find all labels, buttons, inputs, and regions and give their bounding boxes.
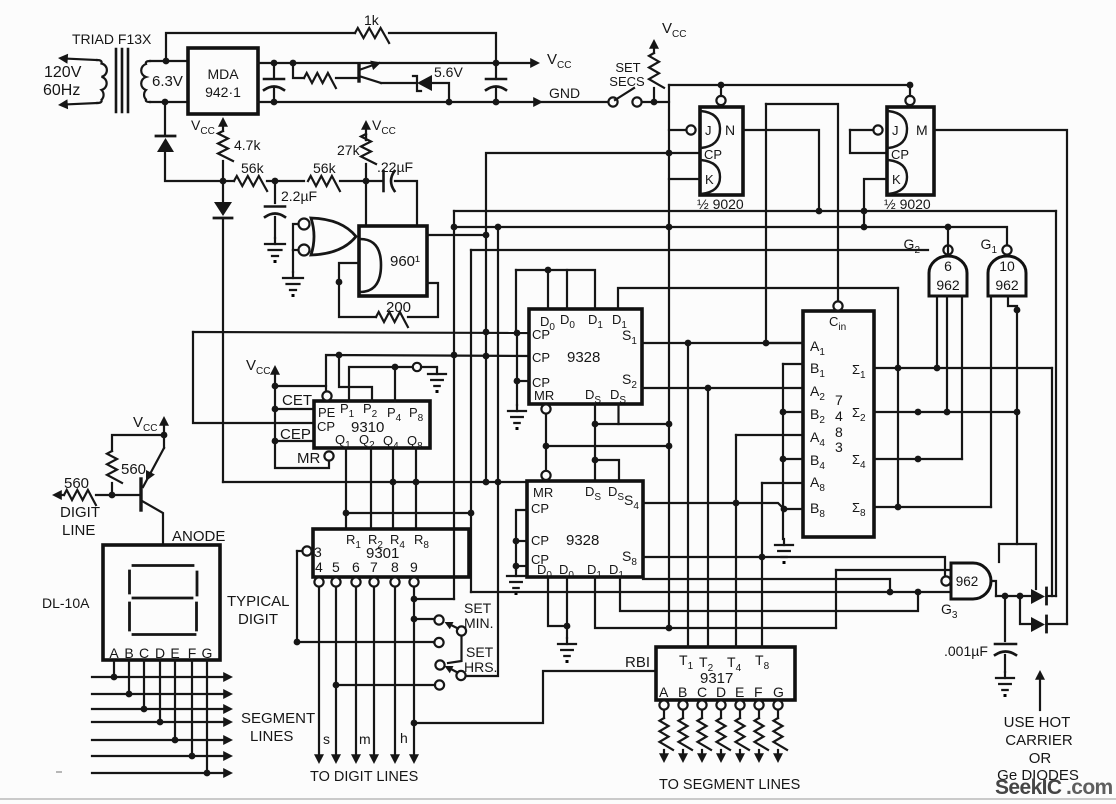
resistor 200 feedback [339, 263, 438, 327]
svg-text:DS: DS [585, 484, 601, 503]
svg-text:K: K [705, 172, 714, 187]
wire d1b chain [618, 288, 898, 309]
label Vcc 9310 [246, 357, 270, 377]
node y227 left [451, 224, 458, 231]
svg-text:T8: T8 [755, 652, 770, 672]
arrow Vcc 27k [361, 120, 371, 140]
wire g2 in2 [946, 296, 948, 412]
segment resistors [659, 710, 787, 763]
wire out down bus [485, 235, 487, 482]
wire top rail to 1k [166, 33, 355, 61]
svg-text:R1: R1 [346, 532, 361, 551]
wire ff2 J feed [850, 130, 887, 153]
capacitor C2 [486, 63, 506, 102]
segments digit [130, 566, 198, 635]
wire P2 jog [339, 355, 372, 401]
wire clock bus y332 [193, 332, 529, 333]
ground cp b [507, 570, 525, 595]
node cp2b [513, 538, 520, 545]
transistor Q1 [359, 61, 381, 83]
wire g3 out [992, 581, 997, 596]
label TRIAD F13X [72, 31, 152, 47]
label Vcc setsecs [662, 20, 686, 40]
nand G3 [941, 563, 991, 599]
label Vcc mda [191, 117, 215, 137]
svg-text:4: 4 [835, 408, 843, 424]
node C1 bottom [271, 99, 278, 106]
wire ds spine [594, 404, 596, 481]
wire a1 feed [765, 104, 767, 343]
node C2 bottom [493, 99, 500, 106]
node sethrs 482 [495, 224, 502, 486]
node cap C1 top [271, 60, 278, 67]
rectifier MDA 942-1 [188, 48, 258, 114]
svg-text:MR: MR [533, 485, 553, 500]
label h [400, 730, 408, 746]
label Vcc digit [133, 414, 157, 434]
svg-text:E: E [170, 645, 179, 661]
wire d0a stub [547, 270, 549, 309]
wire 27k to 9601 [365, 181, 367, 226]
svg-text:1k: 1k [364, 12, 380, 28]
label 4.7k [234, 137, 261, 153]
capacitor .001uF [995, 596, 1016, 672]
wire g3 in1 [836, 569, 951, 571]
svg-text:VCC: VCC [662, 20, 686, 40]
label 27k [337, 142, 361, 158]
wire pin3 drop [296, 551, 298, 642]
svg-text:6: 6 [352, 559, 360, 575]
label .001uF [944, 643, 988, 659]
wire GND rail [258, 101, 608, 103]
svg-text:B: B [678, 684, 687, 700]
node q1 513 [343, 510, 350, 517]
wire x454 down [453, 211, 455, 599]
transformer T1 core [116, 49, 128, 112]
svg-text:9328: 9328 [566, 532, 599, 549]
wire col5 [331, 587, 341, 764]
svg-text:S1: S1 [622, 327, 637, 347]
label 56k b [313, 160, 337, 176]
transformer T1 primary [58, 54, 107, 110]
label GND [549, 85, 580, 101]
svg-text:s: s [323, 731, 330, 747]
node setsecs [651, 99, 658, 106]
label m [359, 731, 371, 747]
node pin9 599 [411, 596, 418, 603]
svg-text:CP: CP [531, 501, 549, 516]
wire Vcc chain 9310 [275, 386, 329, 468]
wire x669 long vertical [668, 85, 670, 628]
ground gate [283, 272, 303, 297]
node pe [272, 383, 279, 390]
label half 9020 ff1 [697, 196, 744, 212]
resistor 560 vertical [107, 451, 122, 495]
wire S2 row [642, 387, 803, 389]
node sig1 898 [895, 365, 902, 372]
label DIGIT LINE [60, 504, 100, 539]
label USE HOT CARRIER [997, 714, 1079, 784]
wire d0b stub [566, 270, 568, 309]
node x669 L3 [666, 625, 673, 632]
wire d1a chain [595, 577, 836, 628]
arrow Vcc setsecs [649, 39, 659, 53]
svg-text:962: 962 [995, 277, 1019, 293]
node vcc digit [161, 432, 168, 439]
svg-text:CP: CP [532, 327, 550, 342]
wire d2 drop [1020, 596, 1031, 624]
wire preset bus y85 [669, 84, 910, 86]
svg-text:56k: 56k [241, 160, 265, 176]
wire rail to CP1 [642, 101, 669, 103]
node CP drop [666, 150, 673, 157]
segment junction dots [111, 674, 211, 777]
label TO DIGIT LINES [310, 769, 418, 785]
svg-text:962: 962 [936, 277, 960, 293]
wire S4 row [643, 503, 784, 509]
svg-text:TYPICAL: TYPICAL [227, 593, 290, 610]
svg-text:MDA: MDA [207, 66, 239, 82]
node p4 [392, 364, 399, 371]
node dr1 [1002, 593, 1009, 600]
svg-text:60Hz: 60Hz [43, 82, 80, 99]
svg-text:9: 9 [410, 559, 418, 575]
node out y482 [483, 479, 490, 486]
svg-text:7: 7 [835, 392, 843, 408]
svg-text:7: 7 [370, 559, 378, 575]
nand G1 [988, 245, 1026, 296]
display DL-10A [103, 545, 220, 660]
svg-text:560: 560 [64, 475, 89, 492]
node 471 513 [468, 510, 475, 517]
wire ff2 K [864, 179, 887, 227]
node out y332 [483, 329, 490, 336]
node ds 460 [592, 457, 599, 464]
svg-text:USE HOT: USE HOT [1004, 714, 1071, 731]
svg-text:A4: A4 [810, 429, 825, 449]
wire y642 to switch [297, 641, 434, 643]
svg-text:9328: 9328 [567, 349, 600, 366]
node cp3b [513, 563, 520, 570]
svg-text:m: m [359, 731, 371, 747]
arrow Vcc 9310 [270, 365, 280, 386]
switch SET SECS [608, 88, 641, 107]
svg-text:962: 962 [956, 574, 979, 589]
wire x836 up [835, 570, 837, 628]
node q4 482 [390, 479, 397, 486]
svg-text:G: G [202, 645, 213, 661]
node D1 top [162, 99, 169, 106]
label s [323, 731, 330, 747]
page line [0, 772, 1116, 799]
svg-text:CARRIER: CARRIER [1005, 732, 1073, 749]
svg-text:SECS: SECS [609, 74, 645, 89]
ground 2.2uF [265, 238, 285, 263]
svg-text:F: F [188, 645, 197, 661]
transistor Q2 pnp [141, 435, 164, 545]
svg-text:27k: 27k [337, 142, 361, 158]
wire t4 up [735, 435, 737, 647]
svg-text:5.6V: 5.6V [434, 64, 463, 80]
node x297 pin3 [294, 639, 301, 646]
svg-text:P4: P4 [387, 405, 402, 424]
svg-text:.com: .com [1066, 776, 1113, 799]
svg-text:120V: 120V [44, 64, 82, 81]
label RBI [625, 654, 650, 671]
nand G2 [929, 229, 967, 296]
wire ff1 K [669, 178, 700, 180]
ground p bus [428, 368, 446, 393]
flip-flop FF2 half 9020 [873, 85, 934, 195]
svg-text:SET: SET [466, 644, 494, 660]
svg-text:Cin: Cin [829, 314, 846, 333]
wire d0 bus [516, 270, 595, 309]
label SEGMENT LINES [241, 710, 315, 745]
wire col9 [409, 587, 419, 764]
svg-text:h: h [400, 730, 408, 746]
wire Vcc rail from MDA [258, 62, 496, 64]
svg-text:SeekIC: SeekIC [995, 776, 1062, 799]
node b2 [780, 409, 787, 416]
svg-text:960¹: 960¹ [390, 253, 420, 270]
watermark SeekIC.com [995, 776, 1113, 799]
node cep [272, 438, 279, 445]
svg-text:CET: CET [282, 392, 312, 409]
wire x516 up [515, 270, 517, 334]
wire x471 down [470, 250, 472, 592]
node ff2 preset [907, 82, 914, 89]
label 200 [386, 299, 411, 316]
node y446 x669 [666, 443, 673, 450]
svg-text:SET: SET [464, 600, 492, 616]
node N bus [816, 208, 823, 215]
svg-text:TO DIGIT LINES: TO DIGIT LINES [310, 769, 418, 785]
wire diode1 up [1051, 368, 1053, 596]
svg-text:560: 560 [121, 461, 146, 478]
wire to setmin [414, 618, 434, 620]
node b8 [781, 506, 788, 513]
svg-text:HRS.: HRS. [464, 659, 497, 675]
ground b bus [775, 539, 793, 564]
label 5.6V [434, 64, 463, 80]
svg-text:3: 3 [314, 544, 322, 560]
svg-text:B: B [124, 645, 133, 661]
diode hot2 [1031, 616, 1067, 632]
svg-text:A8: A8 [810, 474, 825, 494]
resistor 27k [361, 134, 376, 181]
svg-text:D: D [155, 645, 165, 661]
svg-text:A: A [659, 684, 669, 700]
svg-text:CP: CP [532, 350, 550, 365]
node q8 482 [413, 479, 420, 486]
label G3 [941, 601, 958, 621]
wire ds a2 stub [617, 404, 619, 424]
wire col6 [351, 587, 361, 764]
node zener gnd [446, 99, 453, 106]
wire S1 row [642, 342, 803, 344]
label G2 [904, 236, 921, 256]
wire vcc to 560 [112, 435, 164, 451]
label Vcc 27k [372, 117, 396, 137]
resistor base [293, 63, 357, 88]
wire a1 in [766, 342, 803, 344]
svg-text:F: F [754, 684, 763, 700]
wire x1036 down [1035, 544, 1037, 589]
wire ds b2 stub [595, 460, 619, 481]
svg-text:SEGMENT: SEGMENT [241, 710, 315, 727]
wire y513 bus [346, 512, 471, 514]
svg-text:56k: 56k [313, 160, 337, 176]
svg-text:½ 9020: ½ 9020 [884, 196, 931, 212]
svg-text:ANODE: ANODE [172, 528, 225, 545]
svg-text:G3: G3 [941, 601, 958, 621]
svg-text:A: A [109, 645, 119, 661]
svg-text:PE: PE [318, 405, 336, 420]
switch SET HRS contact2 [336, 680, 444, 689]
wire CET [275, 408, 314, 410]
diode D1 left [156, 102, 223, 181]
counter 9310 [314, 391, 430, 460]
xor gate shape [311, 218, 356, 255]
wire g1 in2 [1008, 296, 1017, 544]
label TO SEGMENT LINES [659, 777, 800, 793]
display pin drops [114, 660, 207, 773]
svg-text:D1: D1 [588, 312, 603, 331]
svg-text:CP: CP [891, 147, 909, 162]
node s1 t1 [685, 340, 692, 347]
arrow use hot [1035, 670, 1045, 710]
svg-text:.22µF: .22µF [377, 159, 413, 175]
node d0 gnd [564, 623, 571, 630]
svg-text:S2: S2 [622, 371, 637, 391]
node y227 x669 [666, 224, 673, 231]
label 6.3V [152, 73, 183, 90]
wire sigma1 row [874, 367, 1052, 369]
node ff2 K bus [861, 208, 868, 231]
svg-text:P2: P2 [363, 401, 378, 420]
svg-text:N: N [725, 122, 735, 138]
node d0a [545, 267, 552, 274]
label .22uF [377, 159, 413, 175]
svg-text:B8: B8 [810, 500, 825, 520]
switch SET MIN contact2 [434, 638, 444, 647]
capacitor C1 [264, 63, 284, 102]
svg-text:MR: MR [297, 450, 320, 467]
wire d1b chain b [620, 577, 918, 611]
svg-text:RBI: RBI [625, 654, 650, 671]
wire g1 in1 [990, 296, 992, 507]
svg-text:SET: SET [615, 60, 640, 75]
node sig1 937 [934, 365, 941, 372]
node sig2 1017 [1014, 409, 1021, 416]
node g1 jog [1014, 307, 1021, 314]
label Vcc top [547, 51, 571, 71]
ground .001uF [996, 672, 1014, 697]
open node p8 [413, 363, 437, 371]
svg-text:E: E [735, 684, 744, 700]
wire t2 up [707, 388, 709, 647]
svg-text:Σ2: Σ2 [852, 405, 866, 424]
wire y424 link [595, 423, 669, 425]
resistor 560 horizontal [52, 490, 139, 505]
wire col7 [369, 587, 379, 764]
switch SET MIN [434, 615, 466, 663]
wire g2 in3 [961, 296, 963, 459]
label SET MIN [464, 600, 494, 631]
flip-flop FF1 half 9020 [669, 85, 743, 195]
node ff1 preset [718, 82, 725, 89]
svg-text:DS: DS [608, 484, 624, 503]
label DL-10A [42, 595, 90, 611]
label half 9020 ff2 [884, 196, 931, 212]
svg-text:S8: S8 [622, 548, 637, 568]
resistor 56k b [308, 176, 366, 191]
wire Q4 down [392, 448, 394, 529]
svg-text:942·1: 942·1 [205, 84, 241, 100]
driver 9317 [656, 647, 795, 700]
resistor 56k a [223, 176, 304, 191]
wire g2 in1 [936, 296, 938, 368]
resistor setsecs pullup [649, 53, 664, 102]
node s1 a1 [763, 340, 770, 347]
node b4 [780, 456, 787, 463]
node cp1a [514, 330, 521, 337]
svg-text:CP: CP [531, 533, 549, 548]
wire bus y227 to G gates [454, 227, 1007, 245]
node sig2 947 [944, 409, 951, 416]
wire CEP [275, 440, 314, 442]
node dr2 [1017, 593, 1024, 600]
svg-text:P1: P1 [340, 401, 355, 420]
label TYPICAL DIGIT [227, 593, 290, 628]
svg-text:A2: A2 [810, 383, 825, 403]
wire sigma8 row [874, 506, 991, 508]
svg-text:B1: B1 [810, 360, 825, 380]
wire t1 up [687, 343, 689, 647]
wire mr link [545, 414, 547, 471]
diode D2 down [214, 181, 232, 482]
svg-text:.001µF: .001µF [944, 643, 988, 659]
wire P1 stub [349, 367, 412, 401]
wire sigma2 row [874, 411, 1017, 413]
node col5 hrs [333, 682, 340, 689]
node 2.2uF tap [272, 178, 279, 185]
wire ff1 N out [743, 130, 819, 211]
svg-text:DL-10A: DL-10A [42, 595, 90, 611]
svg-text:J: J [705, 123, 712, 138]
label 2.2uF [281, 188, 317, 204]
svg-text:P8: P8 [409, 405, 424, 424]
node 9601 out [483, 232, 490, 239]
9301 output bubbles [314, 577, 418, 586]
node pe bus [451, 352, 458, 359]
wire 9310 CP feed [193, 332, 314, 423]
svg-text:G1: G1 [981, 236, 998, 256]
arrow Vcc digit [159, 416, 169, 435]
svg-text:4.7k: 4.7k [234, 137, 261, 153]
label SET HRS [464, 644, 497, 675]
svg-text:VCC: VCC [191, 117, 215, 137]
svg-text:VCC: VCC [133, 414, 157, 434]
svg-text:R8: R8 [414, 532, 429, 551]
node Vcc cap [493, 60, 500, 67]
svg-text:B2: B2 [810, 406, 825, 426]
svg-text:Σ4: Σ4 [852, 452, 866, 471]
wire t8 up [761, 483, 763, 647]
one-shot 9601 [359, 226, 427, 296]
svg-text:TO SEGMENT LINES: TO SEGMENT LINES [659, 777, 800, 793]
svg-text:VCC: VCC [372, 117, 396, 137]
